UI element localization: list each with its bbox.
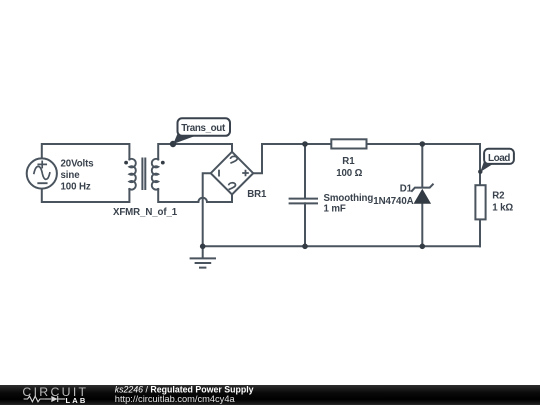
svg-text:Load: Load — [488, 153, 510, 164]
svg-text:R1: R1 — [342, 156, 355, 167]
svg-text:Trans_out: Trans_out — [181, 123, 226, 134]
svg-text:LAB: LAB — [66, 396, 88, 405]
svg-text:BR1: BR1 — [247, 189, 267, 200]
svg-text:sine: sine — [61, 170, 81, 181]
svg-text:100 Ω: 100 Ω — [336, 168, 362, 179]
svg-text:1 mF: 1 mF — [324, 203, 346, 214]
svg-text:http://circuitlab.com/cm4cy4a: http://circuitlab.com/cm4cy4a — [115, 394, 236, 404]
svg-text:D1: D1 — [400, 183, 413, 194]
svg-text:1N4740A: 1N4740A — [373, 196, 413, 207]
svg-text:1 kΩ: 1 kΩ — [492, 203, 513, 214]
svg-text:XFMR_N_of_1: XFMR_N_of_1 — [113, 207, 178, 218]
svg-text:100 Hz: 100 Hz — [61, 181, 91, 192]
svg-text:R2: R2 — [492, 190, 504, 201]
svg-text:20Volts: 20Volts — [61, 159, 94, 170]
